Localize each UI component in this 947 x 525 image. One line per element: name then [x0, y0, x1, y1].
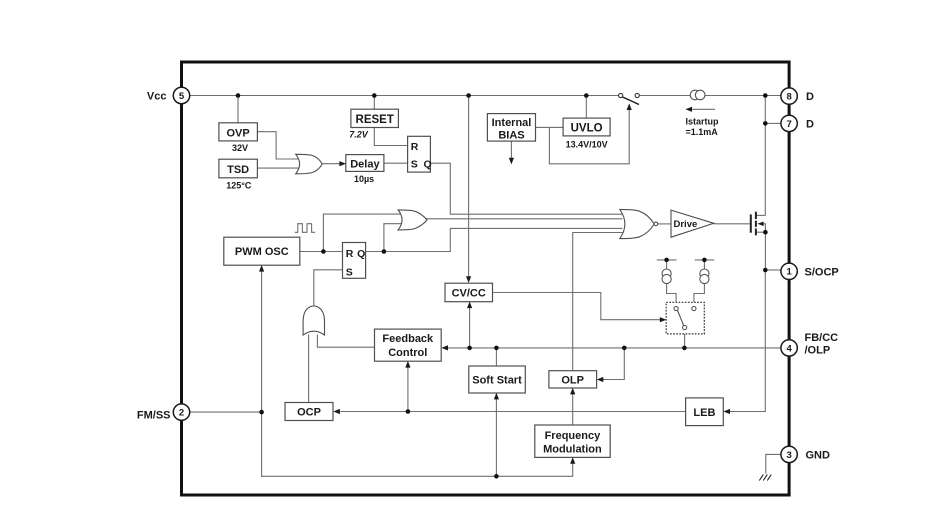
- svg-text:Q: Q: [357, 248, 365, 260]
- svg-text:8: 8: [786, 92, 791, 103]
- svg-text:CV/CC: CV/CC: [452, 287, 486, 299]
- svg-text:Vcc: Vcc: [147, 90, 167, 102]
- svg-text:Drive: Drive: [674, 219, 698, 230]
- svg-text:BIAS: BIAS: [498, 130, 524, 142]
- svg-text:D: D: [806, 118, 814, 130]
- svg-text:LEB: LEB: [693, 407, 715, 419]
- svg-text:Soft Start: Soft Start: [472, 375, 522, 387]
- svg-text:PWM OSC: PWM OSC: [235, 246, 289, 258]
- svg-text:7: 7: [786, 119, 791, 130]
- svg-text:OVP: OVP: [226, 127, 249, 139]
- svg-text:Feedback: Feedback: [382, 333, 434, 345]
- svg-text:R: R: [346, 248, 354, 260]
- svg-text:UVLO: UVLO: [571, 123, 603, 135]
- svg-text:S: S: [411, 158, 418, 170]
- svg-text:TSD: TSD: [227, 164, 249, 176]
- svg-text:Frequency: Frequency: [545, 430, 602, 442]
- svg-text:=1.1mA: =1.1mA: [686, 127, 719, 137]
- svg-text:FB/CC: FB/CC: [805, 332, 839, 344]
- svg-text:3: 3: [786, 450, 791, 461]
- svg-text:/OLP: /OLP: [805, 344, 831, 356]
- svg-text:2: 2: [179, 408, 184, 419]
- svg-text:S: S: [346, 266, 353, 278]
- svg-text:D: D: [806, 91, 814, 103]
- svg-text:OLP: OLP: [561, 374, 584, 386]
- svg-text:Q: Q: [424, 158, 432, 170]
- svg-text:GND: GND: [806, 449, 831, 461]
- svg-text:Delay: Delay: [350, 159, 380, 171]
- svg-text:FM/SS: FM/SS: [137, 410, 171, 422]
- svg-text:13.4V/10V: 13.4V/10V: [566, 139, 608, 149]
- svg-text:1: 1: [786, 267, 792, 278]
- svg-text:R: R: [411, 141, 419, 153]
- svg-text:125°C: 125°C: [226, 180, 252, 190]
- svg-text:Modulation: Modulation: [543, 443, 602, 455]
- svg-text:RESET: RESET: [356, 114, 394, 126]
- svg-text:32V: 32V: [232, 143, 248, 153]
- svg-text:4: 4: [786, 343, 792, 354]
- svg-text:Istartup: Istartup: [686, 117, 720, 127]
- svg-text:OCP: OCP: [297, 407, 321, 419]
- svg-text:5: 5: [179, 91, 185, 102]
- svg-text:Internal: Internal: [492, 117, 532, 129]
- svg-text:10µs: 10µs: [354, 174, 374, 184]
- svg-text:7.2V: 7.2V: [349, 129, 369, 139]
- svg-text:S/OCP: S/OCP: [805, 266, 839, 278]
- svg-text:Control: Control: [388, 347, 427, 359]
